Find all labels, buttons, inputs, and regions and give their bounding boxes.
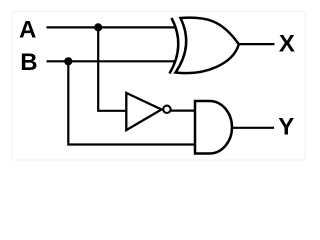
wire from B junction down to AND gate lower input	[68, 61, 195, 144]
inverter U2 triangle	[126, 93, 161, 130]
junction dot on wire B	[64, 57, 72, 65]
wire XOR output to X	[239, 43, 275, 45]
svg-text:Y: Y	[278, 114, 294, 141]
svg-text:A: A	[19, 17, 36, 44]
wire B horizontal	[47, 60, 176, 62]
svg-text:B: B	[20, 49, 37, 76]
wire A horizontal	[47, 26, 177, 28]
inverter U2 bubble	[163, 106, 170, 113]
wire AND output to Y	[232, 127, 274, 129]
svg-text:X: X	[279, 31, 295, 58]
wire from A junction down to inverter input	[98, 27, 126, 110]
XOR gate U1	[170, 18, 239, 74]
AND gate U3	[195, 101, 232, 154]
junction dot on wire A	[94, 23, 102, 31]
wire inverter output to AND gate upper input	[171, 109, 196, 111]
